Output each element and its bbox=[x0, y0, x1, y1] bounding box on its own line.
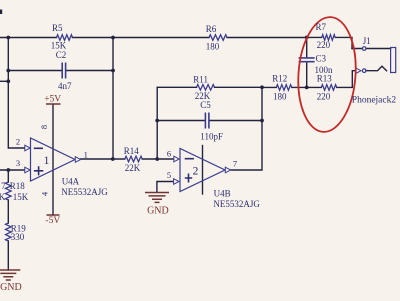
svg-text:R5: R5 bbox=[52, 23, 63, 33]
svg-text:220: 220 bbox=[317, 92, 331, 102]
svg-text:15K: 15K bbox=[13, 192, 29, 202]
svg-text:R11: R11 bbox=[193, 74, 208, 84]
svg-text:+5V: +5V bbox=[44, 94, 61, 104]
svg-text:C3: C3 bbox=[316, 53, 327, 63]
svg-text:7: 7 bbox=[233, 159, 237, 169]
svg-text:R7: R7 bbox=[316, 22, 327, 32]
svg-text:-5V: -5V bbox=[45, 216, 60, 226]
svg-text:C5: C5 bbox=[200, 100, 211, 110]
svg-text:GND: GND bbox=[0, 282, 22, 293]
svg-text:U4A: U4A bbox=[62, 177, 80, 187]
svg-text:J1: J1 bbox=[363, 36, 371, 46]
svg-text:NE5532AJG: NE5532AJG bbox=[61, 187, 108, 197]
svg-text:180: 180 bbox=[273, 92, 287, 102]
svg-text:GND: GND bbox=[147, 205, 169, 216]
svg-text:2: 2 bbox=[16, 137, 20, 147]
svg-text:NE5532AJG: NE5532AJG bbox=[213, 199, 260, 209]
svg-text:1: 1 bbox=[44, 155, 50, 167]
svg-text:180: 180 bbox=[206, 42, 220, 52]
svg-text:R18: R18 bbox=[10, 181, 26, 191]
svg-text:5: 5 bbox=[167, 170, 171, 180]
svg-text:4n7: 4n7 bbox=[58, 81, 72, 91]
svg-text:110pF: 110pF bbox=[200, 132, 223, 142]
svg-text:7: 7 bbox=[1, 181, 6, 191]
svg-text:U4B: U4B bbox=[214, 189, 231, 199]
svg-text:15K: 15K bbox=[51, 40, 67, 50]
svg-text:330: 330 bbox=[11, 232, 25, 242]
svg-text:R13: R13 bbox=[317, 73, 333, 83]
svg-text:3: 3 bbox=[16, 158, 20, 168]
svg-text:Phonejack2: Phonejack2 bbox=[352, 95, 397, 105]
svg-text:R6: R6 bbox=[206, 24, 217, 34]
svg-text:C2: C2 bbox=[56, 50, 67, 60]
svg-text:R14: R14 bbox=[124, 146, 140, 156]
svg-text:6: 6 bbox=[167, 148, 171, 158]
svg-text:2: 2 bbox=[193, 166, 199, 178]
svg-text:R12: R12 bbox=[272, 73, 287, 83]
svg-text:8: 8 bbox=[39, 125, 49, 129]
svg-text:220: 220 bbox=[317, 40, 331, 50]
svg-text:22K: 22K bbox=[125, 163, 141, 173]
svg-text:K: K bbox=[0, 192, 6, 202]
svg-text:1: 1 bbox=[84, 149, 88, 159]
